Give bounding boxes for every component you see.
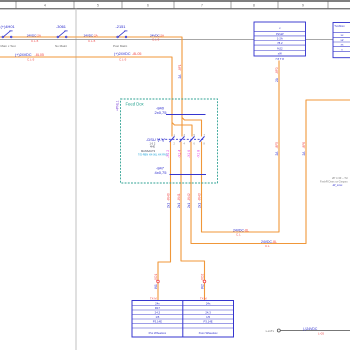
svg-text:-W41: -W41 [177, 193, 181, 201]
svg-text:C.L-5: C.L-5 [27, 57, 35, 61]
svg-text:7: 7 [201, 4, 203, 8]
svg-text:Pxx Wheelsxx: Pxx Wheelsxx [149, 331, 167, 335]
svg-text:2x1: 2x1 [166, 203, 170, 208]
svg-text:-8L05: -8L05 [132, 52, 141, 56]
svg-text:TX-M: TX-M [200, 296, 207, 300]
svg-text:-DSU ⋁-⋁: -DSU ⋁-⋁ [146, 137, 166, 142]
svg-text:x-xxTx: x-xxTx [266, 329, 275, 333]
svg-text:MANSAUT3: MANSAUT3 [141, 149, 156, 153]
svg-text:8: 8 [253, 4, 255, 8]
svg-text:Main x Test: Main x Test [1, 44, 16, 48]
svg-text:Feed Dox: Feed Dox [126, 102, 145, 107]
svg-text:T/D-RBN HX-06L HX-RND: T/D-RBN HX-06L HX-RND [138, 153, 168, 156]
svg-text:-8L05: -8L05 [35, 53, 44, 57]
svg-text:-W_xxxx: -W_xxxx [332, 183, 343, 187]
svg-text:Txxhbxx: Txxhbxx [334, 24, 345, 28]
svg-text:4x0,75: 4x0,75 [155, 170, 168, 175]
svg-text:R17: R17 [155, 306, 161, 310]
svg-text:C.L: C.L [265, 244, 270, 248]
svg-text:W2: W2 [200, 284, 204, 289]
svg-text:24x: 24x [206, 301, 211, 305]
svg-text:xW: xW [278, 52, 282, 56]
svg-text:P3,14E: P3,14E [153, 319, 162, 323]
svg-text:%22: %22 [277, 47, 283, 51]
svg-text:24,3: 24,3 [205, 310, 211, 314]
svg-text:-X1 4: -X1 4 [177, 150, 181, 158]
svg-text:-W42: -W42 [187, 193, 191, 201]
svg-text:C.L-5: C.L-5 [152, 38, 160, 42]
svg-text:Xxxx Wheelsxx: Xxxx Wheelsxx [199, 331, 219, 335]
svg-text:1-2A: 1-2A [277, 37, 283, 41]
svg-text:2x0,75: 2x0,75 [155, 110, 168, 115]
svg-text:24VDC-2A: 24VDC-2A [27, 33, 42, 37]
svg-text:24x: 24x [155, 301, 160, 305]
svg-text:4: 4 [44, 4, 46, 8]
svg-text:-W43: -W43 [197, 193, 201, 201]
svg-text:C.L: C.L [236, 233, 241, 237]
svg-text:1/5: 1/5 [155, 315, 159, 319]
svg-text:-2151: -2151 [116, 24, 126, 29]
svg-text:Post Maint: Post Maint [113, 44, 127, 48]
svg-text:L-05: L-05 [318, 331, 324, 335]
svg-text:(+)4H01: (+)4H01 [1, 24, 15, 29]
svg-text:2x1: 2x1 [197, 203, 201, 208]
svg-text:2x1: 2x1 [177, 203, 181, 208]
svg-text:P3,14E: P3,14E [204, 319, 213, 323]
svg-text:-XD1: -XD1 [154, 274, 158, 281]
svg-text:-X1 2: -X1 2 [166, 150, 170, 158]
svg-text:78.2: 78.2 [277, 41, 283, 45]
svg-text:x2: x2 [341, 38, 344, 42]
svg-text:W1: W1 [154, 284, 158, 289]
svg-text:TX-M: TX-M [150, 296, 157, 300]
svg-text:-8F6: -8F6 [302, 142, 306, 149]
svg-text:5: 5 [97, 4, 99, 8]
svg-text:-8F0: -8F0 [275, 67, 279, 74]
svg-text:(-)24VDC: (-)24VDC [303, 327, 318, 331]
svg-text:-X1 6: -X1 6 [187, 150, 191, 158]
svg-text:FxxhR Dxxx xx Gxxpxx: FxxhR Dxxx xx Gxxpxx [320, 179, 348, 183]
svg-text:P2xW: P2xW [276, 32, 284, 36]
svg-text:-8F1: -8F1 [178, 64, 182, 71]
svg-text:7 8 T 8: 7 8 T 8 [275, 57, 284, 61]
svg-text:-X1 8: -X1 8 [197, 150, 201, 158]
svg-text:24,3: 24,3 [155, 310, 161, 314]
svg-text:6: 6 [147, 4, 149, 8]
svg-text:2P 4 3F - / M: 2P 4 3F - / M [332, 176, 348, 180]
svg-text:C.L-5: C.L-5 [88, 39, 96, 43]
svg-text:(+)24VDC: (+)24VDC [15, 53, 32, 57]
svg-text:4HE: 4HE [150, 145, 155, 149]
svg-text:-XD2: -XD2 [200, 274, 204, 281]
svg-text:9: 9 [302, 4, 304, 8]
svg-text:24VDC-2A: 24VDC-2A [84, 33, 99, 37]
svg-text:-3061: -3061 [56, 24, 66, 29]
svg-text:+PNL1: +PNL1 [116, 100, 120, 111]
svg-text:-W40: -W40 [166, 193, 170, 201]
svg-text:(+)24VDC: (+)24VDC [114, 52, 131, 56]
svg-text:1/5: 1/5 [206, 315, 210, 319]
svg-text:2x1: 2x1 [187, 203, 191, 208]
svg-text:No Maint: No Maint [55, 44, 67, 48]
svg-text:-8F5: -8F5 [275, 142, 279, 149]
svg-text:C.L-5: C.L-5 [31, 39, 39, 43]
svg-text:C.L-5: C.L-5 [119, 57, 127, 61]
